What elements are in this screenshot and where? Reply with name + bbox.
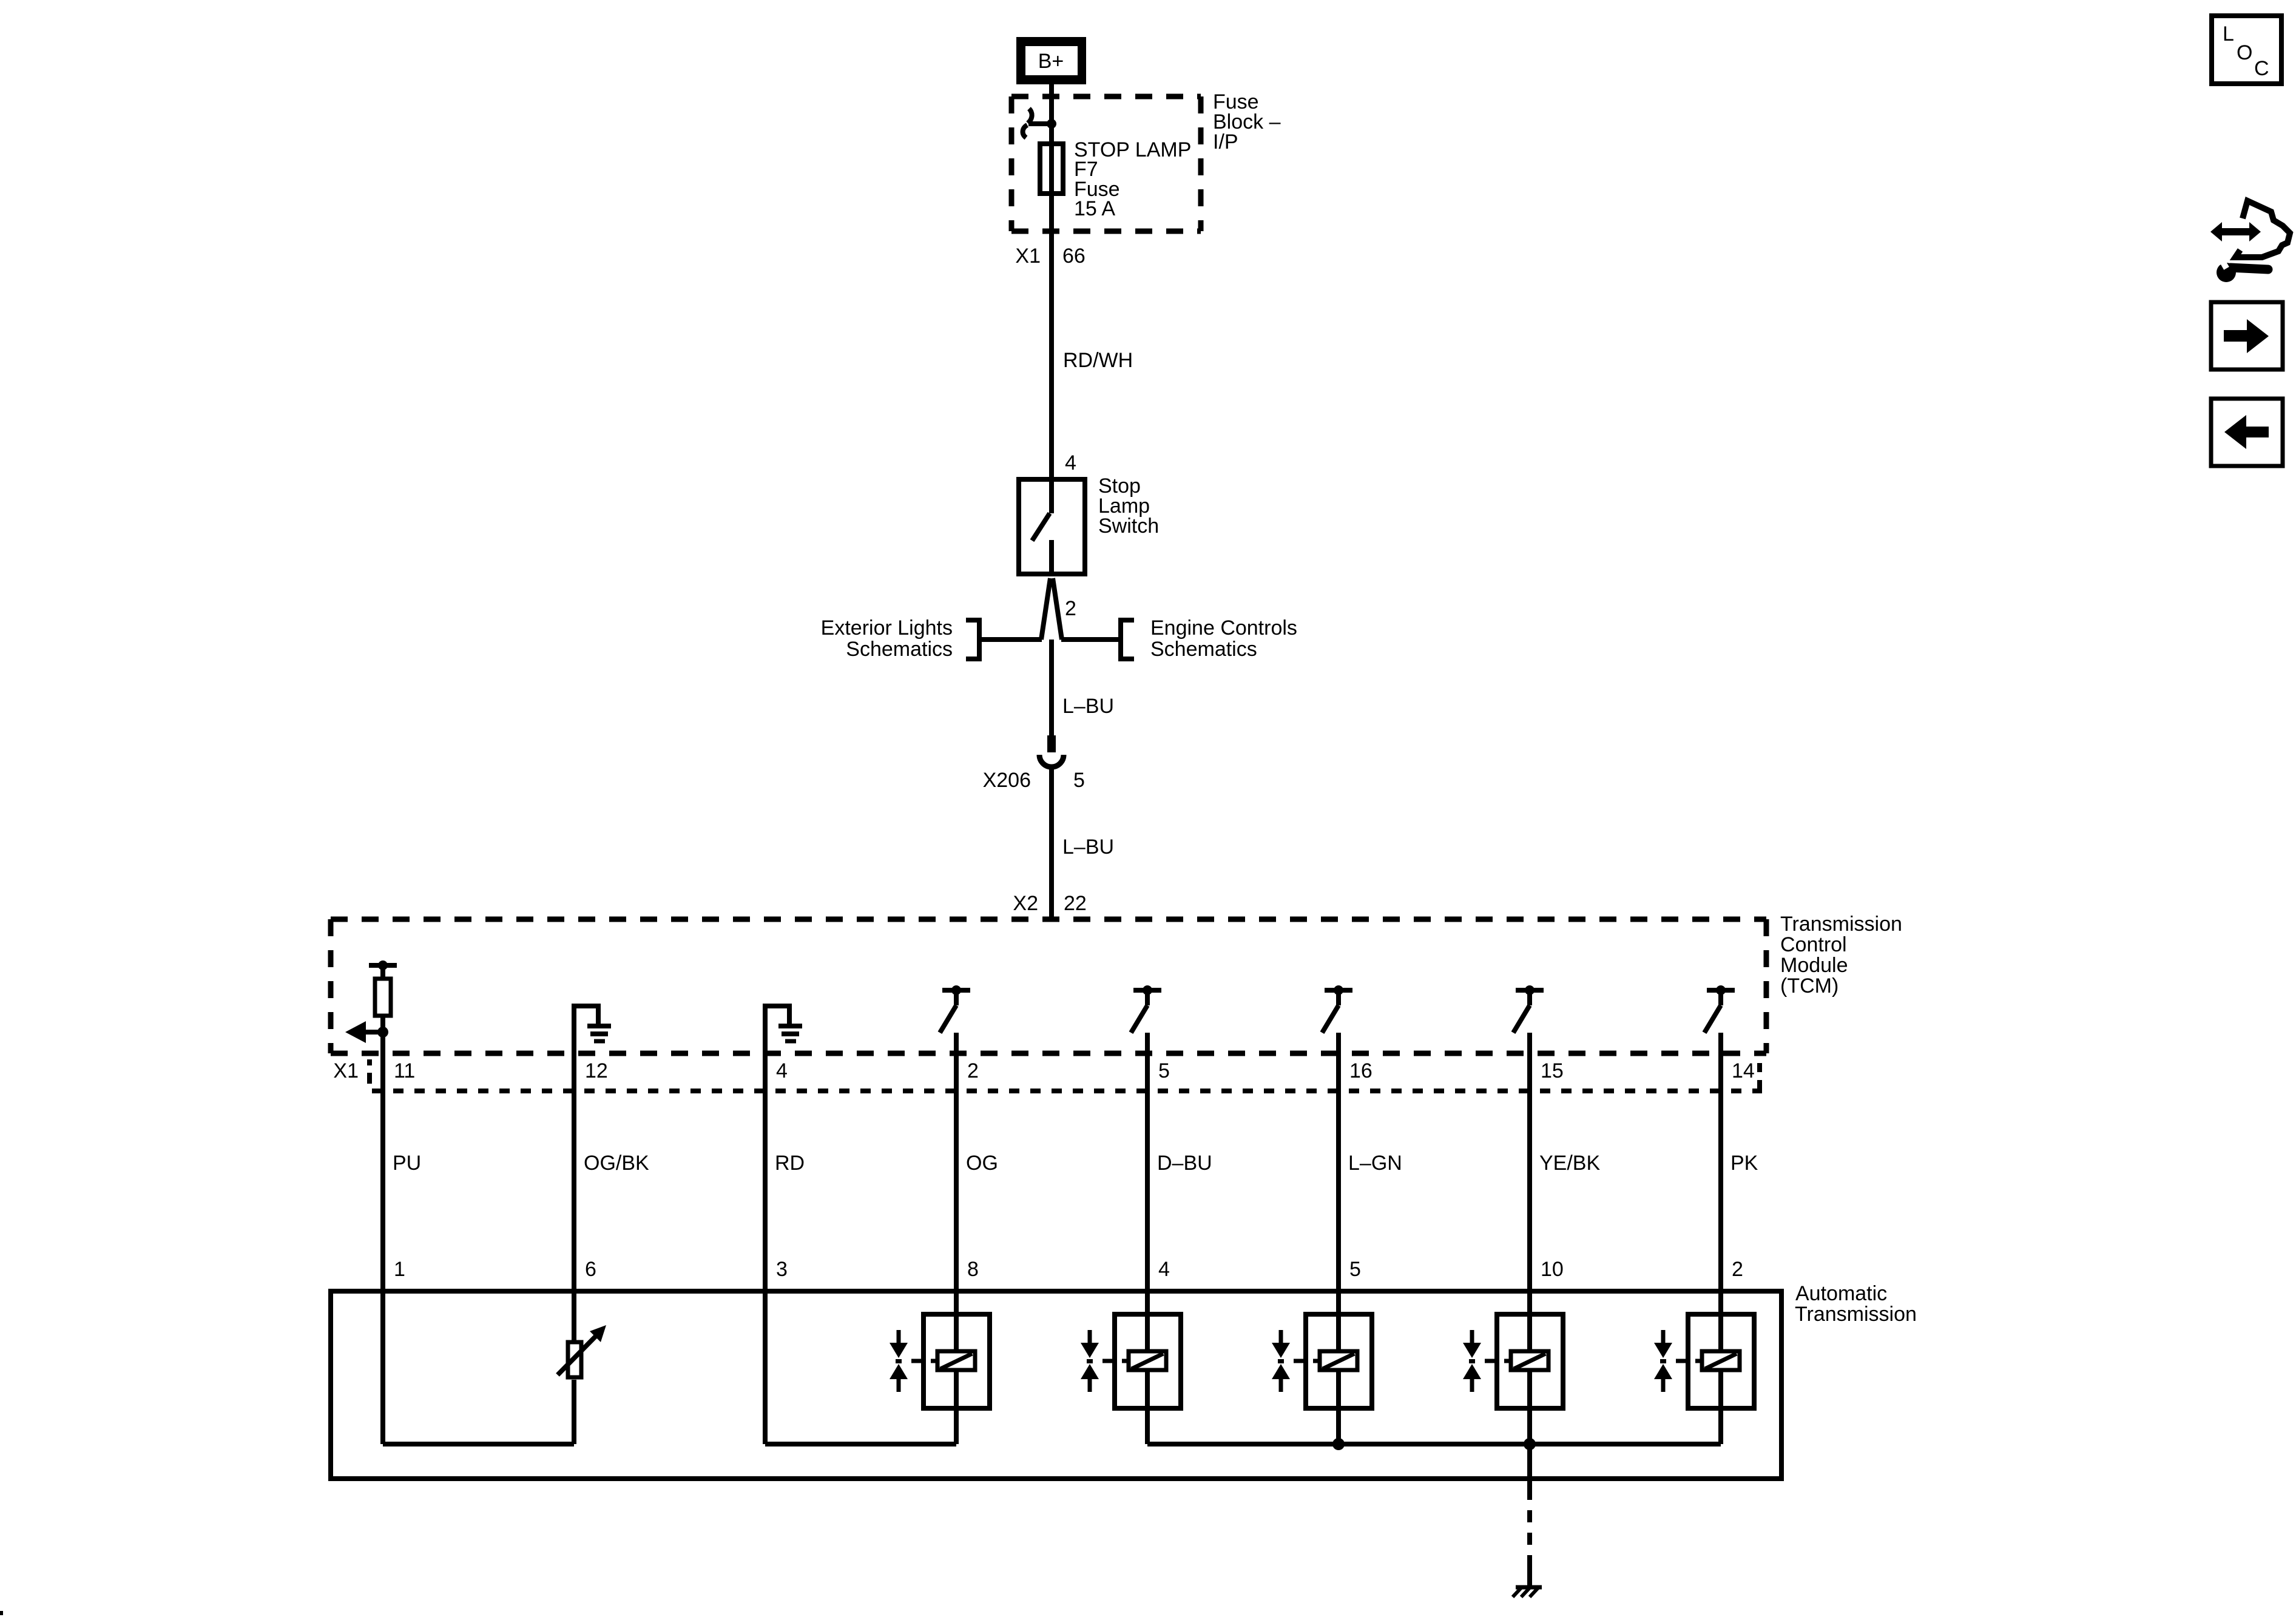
wire: B+ to stop lamp switch (RD/WH) [1049,84,1054,478]
svg-text:L–GN: L–GN [1348,1152,1402,1175]
wire: pin1 to TFT sensor low [383,1442,574,1447]
svg-text:22: 22 [1064,892,1087,915]
check valve symbol (x=2521) [1470,1330,1474,1344]
svg-text:L–BU: L–BU [1062,836,1114,859]
svg-text:PK: PK [1730,1152,1758,1175]
in-line connector X206 pin 5 [1047,735,1056,752]
svg-text:5: 5 [1349,1258,1361,1281]
component location icon: wrench [2217,263,2236,282]
svg-text:X206: X206 [983,769,1031,792]
svg-text:15 A: 15 A [1074,197,1115,220]
svg-text:Switch: Switch [1098,515,1159,538]
connector row dotted line [372,1089,1760,1093]
shift solenoid 1 (pin 8) [923,1314,990,1408]
wire branch to exterior lights [979,637,1042,642]
splice junction arrow below switch [1041,578,1050,640]
wire: X206 to TCM (L-BU) [1049,768,1054,920]
svg-text:(TCM): (TCM) [1780,974,1838,998]
svg-text:Schematics: Schematics [846,638,953,661]
TCM internal ground (pin 12) [574,1006,601,1053]
svg-text:Schematics: Schematics [1150,638,1257,661]
svg-text:O: O [2237,41,2252,64]
svg-text:2: 2 [1065,597,1076,620]
svg-text:B+: B+ [1038,50,1064,73]
svg-text:PU: PU [393,1152,421,1175]
svg-text:YE/BK: YE/BK [1539,1152,1600,1175]
svg-text:L–BU: L–BU [1062,695,1114,718]
svg-text:RD/WH: RD/WH [1063,349,1133,372]
TCC solenoid (pin 10) [1497,1314,1563,1408]
forward arrow icon box [2211,302,2283,370]
TCM internal driver switch (pin 2) [942,988,970,993]
fuse block bus hook [1028,109,1032,123]
node: common junction pin10 [1524,1438,1536,1450]
shift solenoid 3 (pin 2) [1688,1314,1754,1408]
svg-text:I/P: I/P [1213,130,1238,154]
check valve symbol (x=2836) [1661,1330,1666,1344]
svg-text:4: 4 [776,1059,788,1082]
chassis ground G [1516,1585,1542,1590]
solenoid common low wire [1147,1442,1721,1447]
node: pin 11 junction [377,1027,388,1038]
svg-text:66: 66 [1062,245,1086,268]
shift solenoid 2 (pin 4) [1115,1314,1181,1408]
svg-text:OG: OG [966,1152,998,1175]
pressure control solenoid (pin 5) [1306,1314,1372,1408]
TCM internal ground (pin 4) [765,1006,792,1053]
TCM dashed box [331,917,1766,922]
wire from TCM x=1576 (OG) [954,1033,959,1444]
svg-text:D–BU: D–BU [1157,1152,1212,1175]
svg-text:15: 15 [1541,1059,1564,1082]
wire from TCM x=946 (OG/BK) [572,1006,576,1340]
wire from TCM x=1261 (RD) [763,1006,768,1444]
stray ink blot bottom-left [0,1611,3,1615]
svg-text:Transmission: Transmission [1795,1303,1917,1326]
component location icon: double arrow [2210,222,2261,241]
LOC icon box [2212,16,2281,84]
TFT sensor variable resistor [568,1342,581,1377]
TCM internal driver switch (pin 5) [1133,988,1161,993]
TCM internal driver switch (pin 14) [1707,988,1735,993]
svg-text:4: 4 [1158,1258,1170,1281]
check valve symbol (x=2206) [1279,1330,1283,1344]
svg-text:6: 6 [585,1258,596,1281]
wire from TCM x=2521 (YE/BK) [1527,1033,1532,1444]
svg-text:X1: X1 [333,1059,359,1082]
svg-text:Exterior Lights: Exterior Lights [821,616,953,640]
wire from TCM x=2836 (PK) [1718,1033,1723,1444]
dotted separator left [367,1059,372,1065]
check valve symbol (x=1891) [1088,1330,1092,1344]
svg-text:16: 16 [1349,1059,1373,1082]
TCM internal driver switch (pin 15) [1516,988,1544,993]
wire: switch to X206 (L-BU) [1049,640,1054,737]
wire from TCM x=2206 (L&#8211;GN) [1336,1033,1341,1444]
fuse block I/P dashed box [1011,94,1201,100]
svg-text:L: L [2223,22,2234,46]
check valve symbol (x=1576) [897,1330,901,1344]
svg-text:4: 4 [1065,451,1076,474]
svg-text:3: 3 [776,1258,788,1281]
svg-text:Transmission: Transmission [1780,913,1902,936]
svg-text:Engine Controls: Engine Controls [1150,616,1297,640]
svg-text:C: C [2254,57,2269,80]
back arrow icon box [2211,399,2283,466]
node: fuse feed junction [1047,119,1056,129]
wire branch to engine controls [1061,637,1121,642]
svg-text:1: 1 [394,1258,405,1281]
svg-text:12: 12 [585,1059,608,1082]
dashed case ground wire [1527,1444,1532,1488]
svg-text:2: 2 [1732,1258,1743,1281]
wire from TCM x=631 (PU) [380,1018,385,1444]
svg-text:5: 5 [1158,1059,1170,1082]
svg-text:14: 14 [1732,1059,1755,1082]
svg-text:Automatic: Automatic [1795,1282,1887,1305]
svg-text:X2: X2 [1013,892,1038,915]
wire from TCM x=1891 (D&#8211;BU) [1145,1033,1150,1444]
dotted separator right [1757,1063,1762,1072]
svg-text:OG/BK: OG/BK [584,1152,649,1175]
TCM internal output arrow (pin 11) [365,1030,383,1035]
svg-text:X1: X1 [1015,245,1041,268]
svg-text:10: 10 [1541,1258,1564,1281]
wire: pin3 to solenoid 8 low [765,1442,956,1447]
component location icon: part outline [2235,201,2290,257]
bracket: engine controls schematics [1121,620,1134,659]
stop lamp switch S1 [1019,479,1085,574]
svg-text:2: 2 [967,1059,979,1082]
battery feed B+ [1016,37,1086,84]
svg-text:5: 5 [1073,769,1085,792]
bracket: exterior lights schematics [966,620,979,659]
svg-text:Control: Control [1780,933,1847,956]
fuse F7 STOP LAMP 15A [1040,144,1063,194]
svg-text:8: 8 [967,1258,979,1281]
automatic transmission box [331,1291,1781,1479]
svg-text:RD: RD [775,1152,805,1175]
svg-text:11: 11 [394,1059,415,1082]
node: common junction pin5 [1332,1438,1345,1450]
svg-text:Module: Module [1780,954,1848,977]
TCM internal resistor (pin 11) [369,963,397,968]
TCM internal driver switch (pin 16) [1325,988,1352,993]
